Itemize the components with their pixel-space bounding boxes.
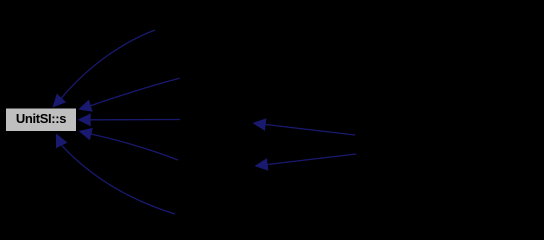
hidden caller node right column: [355, 133, 475, 157]
hidden caller node row 3: [180, 108, 252, 132]
edge 2: caller row 2 -> UnitSI::s (arrow into top-right corner): [78, 78, 179, 111]
svg-text:UnitSI::s: UnitSI::s: [16, 111, 66, 126]
hidden caller node row 2: [179, 66, 252, 90]
edge 7: right-column caller -> hidden node row 4 (lower middle arrow): [255, 154, 357, 171]
edge 6: right-column caller -> hidden node row 3 (upper middle arrow): [253, 118, 356, 135]
edge 3: caller row 3 -> UnitSI::s (horizontal arrow into right edge): [78, 113, 181, 126]
edge 4: caller row 4 -> UnitSI::s (arrow into bottom-right corner): [79, 128, 179, 160]
edge 1: top caller -> UnitSI::s (curved, arrow into top edge of box): [53, 30, 156, 108]
node UnitSI::s (current node, grey fill): [6, 108, 77, 132]
hidden caller node row 1 (top): [155, 18, 252, 42]
edge 5: bottom caller -> UnitSI::s (curved, arrow into bottom edge): [56, 134, 175, 215]
hidden caller node row 5 (bottom): [175, 202, 255, 226]
hidden caller node row 4: [178, 150, 255, 174]
